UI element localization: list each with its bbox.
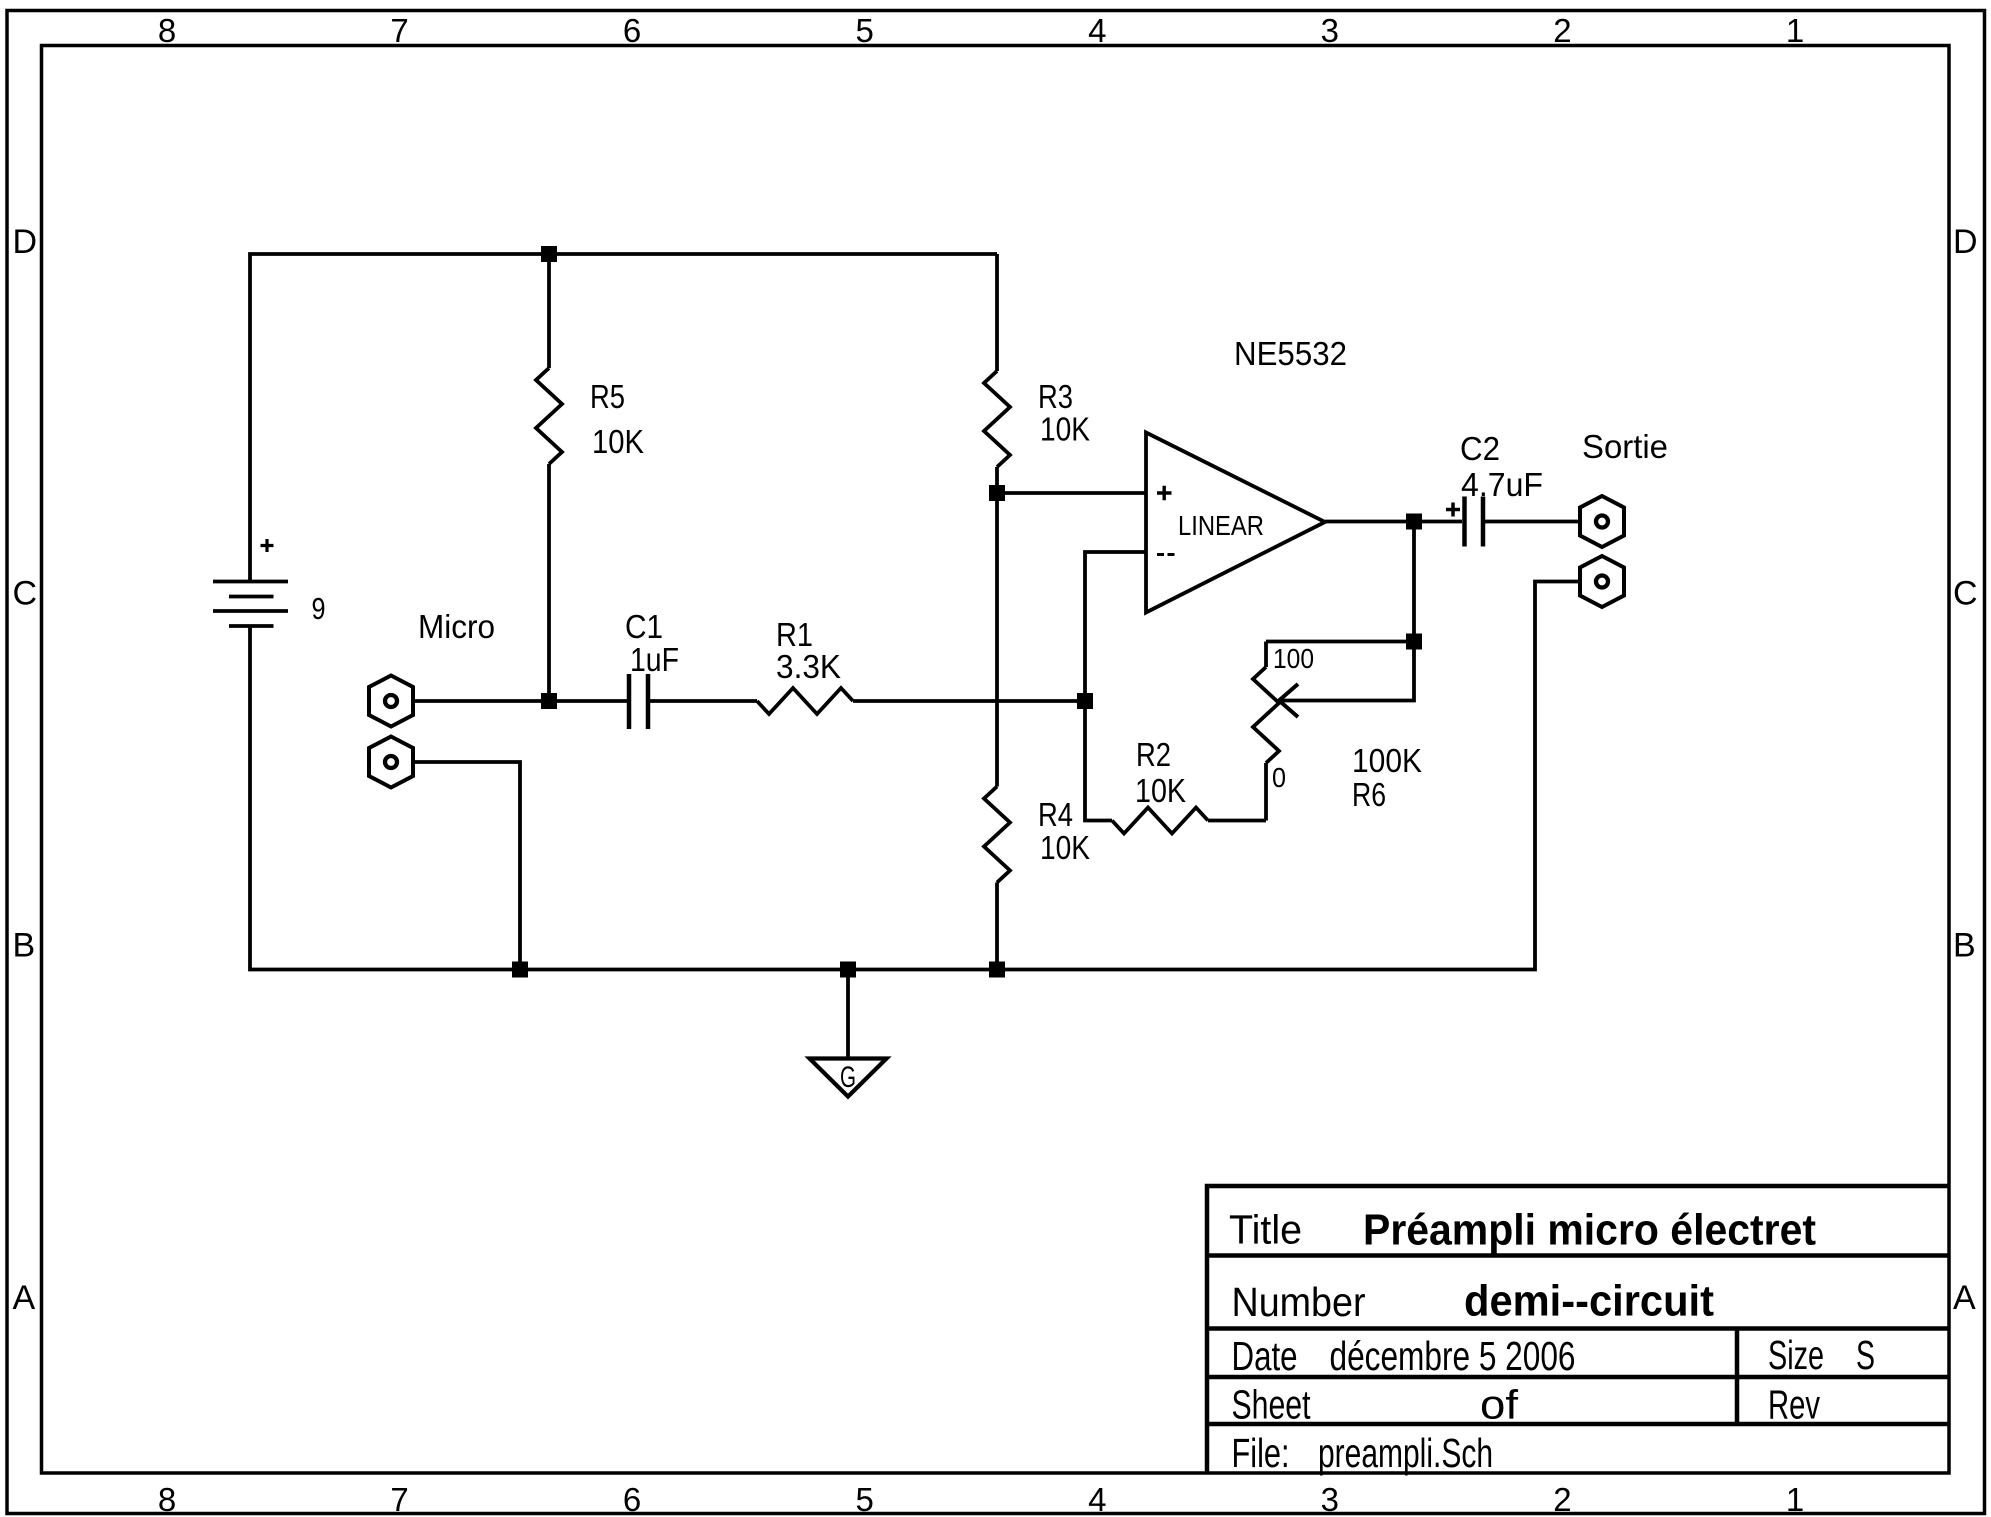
svg-text:10K: 10K [592, 423, 644, 460]
svg-text:10K: 10K [1040, 411, 1090, 448]
battery 9V [213, 582, 288, 627]
svg-text:4: 4 [1088, 12, 1106, 49]
svg-text:Title: Title [1229, 1207, 1302, 1253]
svg-text:File:: File: [1232, 1430, 1290, 1476]
capacitor C2 (polarized) [1465, 497, 1484, 547]
svg-text:C1: C1 [625, 608, 663, 645]
svg-text:100: 100 [1273, 643, 1314, 674]
wire: battery + lead up and top supply rail to R3 column [250, 254, 997, 582]
svg-text:A: A [1953, 1279, 1976, 1317]
svg-text:4: 4 [1088, 1481, 1106, 1517]
svg-text:R4: R4 [1038, 796, 1073, 833]
svg-text:3.3K: 3.3K [776, 648, 841, 685]
junction: mic return / ground rail [512, 962, 528, 978]
border ruler column numbers (top) [158, 12, 1804, 49]
wire: R2 right lead to R6 bottom [1208, 819, 1266, 823]
wire: inverting node riser to op-amp inverting input [1085, 552, 1146, 701]
junction: + input node [989, 485, 1005, 501]
svg-text:5: 5 [856, 12, 874, 49]
svg-text:6: 6 [623, 1481, 641, 1517]
svg-text:Sortie: Sortie [1582, 428, 1668, 465]
op-amp - input pin mark [1157, 553, 1175, 556]
ground symbol G [810, 1059, 887, 1097]
microphone connector pad pin 2 [369, 737, 413, 788]
resistor R2 [1112, 808, 1208, 834]
C2 + polarity mark [1446, 503, 1460, 517]
potentiometer R6 wiper arrow [1279, 684, 1298, 717]
junction: ground symbol / rail [840, 962, 856, 978]
svg-text:Size: Size [1768, 1332, 1824, 1378]
svg-text:6: 6 [623, 12, 641, 49]
junction: output node [1406, 514, 1422, 530]
wire: + input node to op-amp non-inverting input [997, 491, 1146, 495]
wire: C2 to output connector pin 1 [1485, 520, 1580, 524]
resistor R1 [757, 688, 853, 714]
title block frame [1207, 1186, 1949, 1473]
svg-text:B: B [13, 927, 36, 965]
svg-text:C: C [1953, 575, 1978, 613]
svg-text:A: A [13, 1279, 36, 1317]
svg-text:R2: R2 [1136, 736, 1171, 773]
svg-text:Rev: Rev [1768, 1382, 1820, 1428]
wire: C1 to R1 [650, 699, 757, 703]
svg-text:LINEAR: LINEAR [1178, 510, 1264, 541]
wire: R5 bottom lead to input node [547, 464, 551, 701]
svg-text:2: 2 [1553, 12, 1571, 49]
svg-text:10K: 10K [1040, 829, 1090, 866]
svg-text:3: 3 [1321, 12, 1339, 49]
svg-text:10K: 10K [1135, 772, 1186, 809]
wire: R3 bottom lead to + input node [995, 467, 999, 493]
potentiometer R6 body [1253, 667, 1279, 763]
wire: output node down to feedback node [1412, 522, 1416, 642]
wire: microphone pin 2 to ground rail [413, 762, 520, 970]
resistor R4 [984, 787, 1010, 883]
wire: output node to C2 [1414, 520, 1462, 524]
svg-text:1uF: 1uF [630, 641, 679, 678]
wire: R6 top lead [1264, 642, 1268, 668]
wire: R4 bottom lead to ground rail [995, 883, 999, 970]
svg-text:Micro: Micro [418, 608, 495, 645]
svg-text:5: 5 [856, 1481, 874, 1517]
output connector pad pin 1 [1580, 496, 1624, 547]
junction: feedback node [1406, 634, 1422, 650]
svg-text:R6: R6 [1352, 776, 1386, 813]
svg-text:B: B [1953, 927, 1976, 965]
wire: inverting node down to R2 left lead [1085, 701, 1112, 821]
op-amp + input pin mark [1157, 486, 1172, 501]
svg-text:D: D [1953, 223, 1978, 261]
junction: R4 / ground rail [989, 962, 1005, 978]
wire: R6 bottom lead [1264, 763, 1268, 821]
svg-text:1: 1 [1786, 1481, 1804, 1517]
svg-text:1: 1 [1786, 12, 1804, 49]
wire: op-amp output to output node [1325, 520, 1414, 524]
svg-text:Préampli micro électret: Préampli micro électret [1363, 1206, 1816, 1255]
svg-text:8: 8 [158, 1481, 176, 1517]
resistor R3 [984, 371, 1010, 467]
svg-text:G: G [840, 1061, 856, 1094]
border ruler row letters (left) [13, 223, 38, 1317]
wire: ground stem [846, 970, 850, 1059]
wire: microphone pin 1 to node A [413, 699, 627, 703]
wire: R5 top lead [547, 254, 551, 368]
svg-text:R5: R5 [590, 378, 625, 415]
svg-text:NE5532: NE5532 [1234, 335, 1347, 372]
svg-text:2: 2 [1553, 1481, 1571, 1517]
svg-text:décembre 5 2006: décembre 5 2006 [1330, 1333, 1576, 1379]
svg-text:Sheet: Sheet [1232, 1382, 1311, 1428]
svg-text:7: 7 [390, 1481, 408, 1517]
svg-text:3: 3 [1321, 1481, 1339, 1517]
svg-text:8: 8 [158, 12, 176, 49]
svg-text:S: S [1856, 1332, 1875, 1378]
svg-text:D: D [13, 223, 38, 261]
svg-text:demi--circuit: demi--circuit [1464, 1277, 1714, 1326]
svg-text:4.7uF: 4.7uF [1461, 466, 1543, 503]
resistor R5 [536, 368, 562, 464]
svg-text:preampli.Sch: preampli.Sch [1318, 1430, 1493, 1476]
wire: R3 top lead [995, 254, 999, 371]
svg-text:Number: Number [1232, 1279, 1366, 1325]
junction: top rail / R5 [541, 246, 557, 262]
junction: input node A [541, 693, 557, 709]
svg-text:R3: R3 [1038, 378, 1073, 415]
svg-text:100K: 100K [1352, 742, 1422, 779]
wire: R1 to inverting node [853, 699, 1085, 703]
microphone connector pad pin 1 [369, 676, 413, 727]
svg-text:of: of [1480, 1382, 1519, 1428]
border ruler column numbers (bottom) [158, 1481, 1804, 1517]
output connector pad pin 2 [1580, 556, 1624, 607]
capacitor C1 [629, 674, 648, 729]
svg-text:7: 7 [390, 12, 408, 49]
border ruler row letters (right) [1953, 223, 1978, 1317]
op-amp U1 NE5532 [1146, 433, 1325, 613]
wire: battery - lead down, bottom ground rail, riser to output connector pin 2 [250, 582, 1580, 970]
svg-text:C2: C2 [1460, 430, 1500, 467]
wire: feedback node to R6 top [1266, 640, 1414, 644]
svg-text:0: 0 [1272, 762, 1286, 793]
svg-text:C: C [13, 575, 38, 613]
svg-text:9: 9 [312, 592, 326, 626]
svg-text:Date: Date [1232, 1333, 1298, 1379]
battery + polarity mark [261, 539, 274, 552]
junction: inverting node [1077, 693, 1093, 709]
wire: R6 wiper to feedback node [1279, 642, 1414, 701]
wire: + input node down to R4 (crosses signal wire) [995, 493, 999, 787]
